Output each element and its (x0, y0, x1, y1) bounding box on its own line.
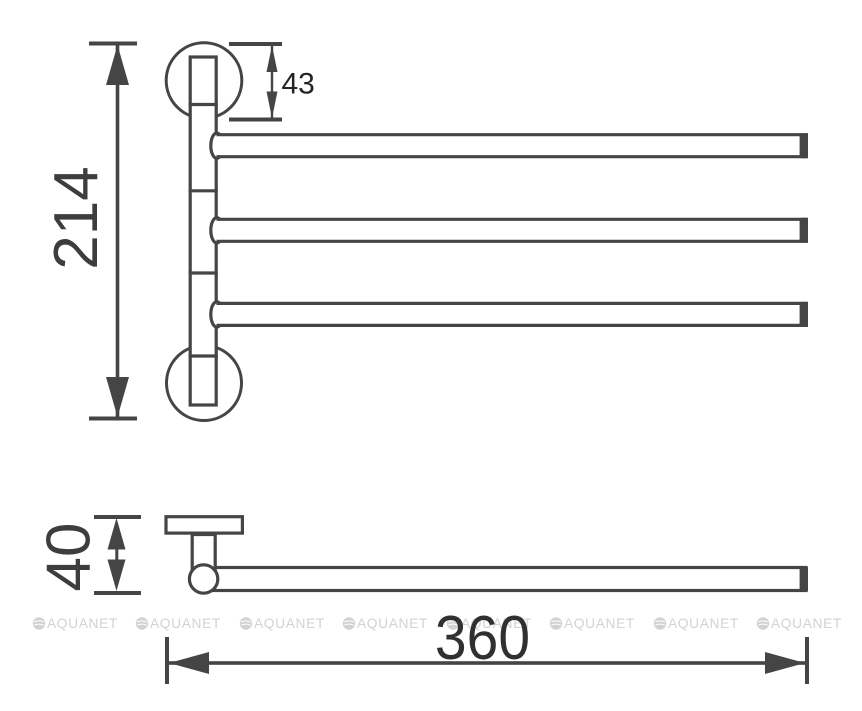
side bar (208, 568, 806, 591)
bar 3 (top view) (211, 302, 808, 327)
svg-text:40: 40 (35, 523, 104, 592)
dim 360 (165, 603, 809, 684)
post divider 1 (189, 103, 218, 106)
post divider 3 (189, 271, 218, 274)
bar 1 (top view) (211, 133, 808, 158)
post divider 4 (189, 354, 218, 357)
side bar end cap (800, 566, 808, 592)
bar 2 (top view) (211, 218, 808, 243)
svg-text:214: 214 (42, 166, 111, 269)
pivot circle (189, 565, 217, 593)
dim 214 (42, 42, 137, 421)
swivel post (190, 57, 216, 405)
side wall plate (166, 517, 242, 533)
svg-text:AQUANET: AQUANET (47, 616, 118, 631)
svg-text:360: 360 (435, 603, 530, 673)
svg-text:43: 43 (282, 68, 315, 101)
top mounting plate circle (166, 43, 242, 119)
dim 43 (229, 42, 315, 122)
watermark band (33, 616, 842, 631)
side post (192, 535, 215, 571)
post divider 2 (189, 189, 218, 192)
dim 40 (35, 515, 142, 595)
bottom mounting plate circle (167, 346, 242, 421)
